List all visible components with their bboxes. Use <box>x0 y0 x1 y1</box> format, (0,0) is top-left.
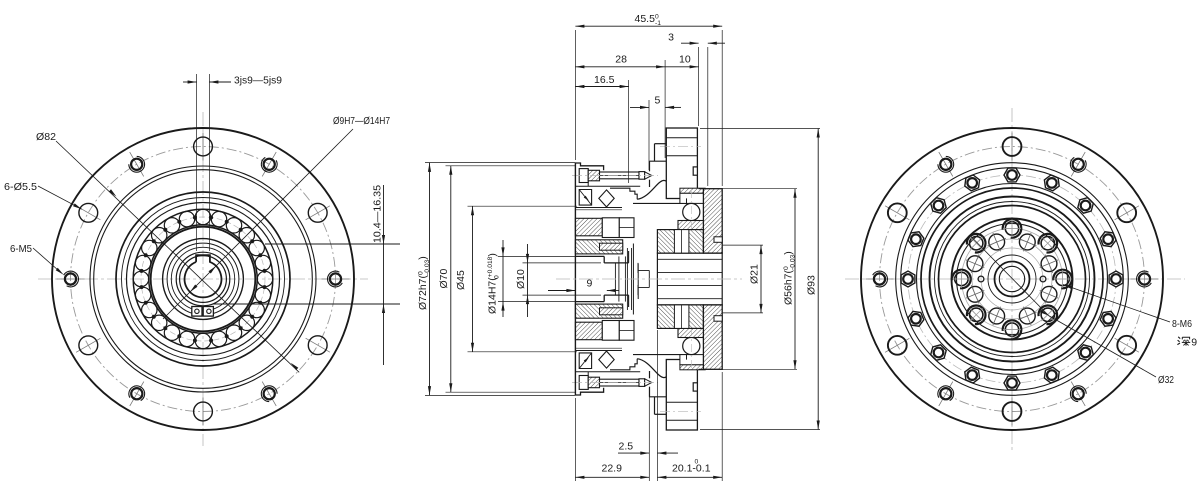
svg-text:6-M5: 6-M5 <box>10 243 32 255</box>
svg-text:22.9: 22.9 <box>602 463 623 475</box>
svg-text:9: 9 <box>1191 337 1197 349</box>
svg-text:3js9—5js9: 3js9—5js9 <box>234 75 282 87</box>
svg-text:Ø70: Ø70 <box>438 268 450 288</box>
svg-text:20.1-0.1: 20.1-0.1 <box>672 463 711 475</box>
svg-text:10: 10 <box>679 54 691 66</box>
svg-text:2.5: 2.5 <box>619 441 634 453</box>
svg-text:Ø45: Ø45 <box>455 270 467 290</box>
svg-text:Ø82: Ø82 <box>36 131 56 143</box>
svg-text:Ø21: Ø21 <box>749 264 761 284</box>
svg-text:Ø10: Ø10 <box>515 269 527 289</box>
svg-text:Ø9H7—Ø14H7: Ø9H7—Ø14H7 <box>333 115 390 127</box>
svg-text:5: 5 <box>655 95 661 107</box>
svg-text:28: 28 <box>615 54 627 66</box>
svg-text:3: 3 <box>668 32 674 44</box>
svg-text:9: 9 <box>587 278 593 290</box>
svg-text:16.5: 16.5 <box>594 74 615 86</box>
svg-text:8-M6: 8-M6 <box>1172 318 1192 330</box>
svg-text:10.4—16.35: 10.4—16.35 <box>372 185 384 243</box>
svg-text:0: 0 <box>695 459 699 466</box>
svg-text:Ø93: Ø93 <box>806 275 818 295</box>
svg-text:45.50-1: 45.50-1 <box>635 13 662 27</box>
svg-text:Ø32: Ø32 <box>1158 374 1174 386</box>
svg-text:6-Ø5.5: 6-Ø5.5 <box>4 181 37 193</box>
